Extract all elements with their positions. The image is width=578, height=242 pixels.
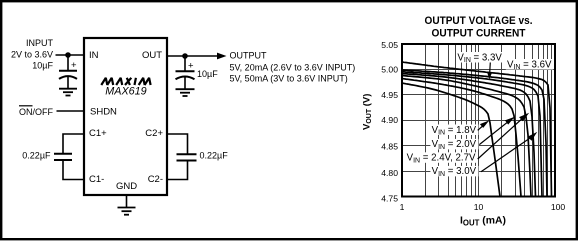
curve VIN=3.0V <box>402 72 542 197</box>
wire C2 bottom to C2- pin <box>167 161 188 180</box>
wire GND pin to ground <box>126 195 128 208</box>
wire C1+ pin to C1 top <box>63 134 84 154</box>
svg-text:5.00: 5.00 <box>381 64 398 74</box>
svg-text:10µF: 10µF <box>197 69 218 79</box>
wire C_out to ground <box>184 77 186 89</box>
svg-text:OUTPUT CURRENT: OUTPUT CURRENT <box>432 28 526 40</box>
chart gridlines <box>402 44 555 197</box>
capacitor C2 0.22uF <box>177 154 197 160</box>
svg-text:5.05: 5.05 <box>381 40 398 50</box>
label VIN=3.0V with arrow <box>430 166 478 177</box>
svg-text:VOUT (V): VOUT (V) <box>362 94 374 130</box>
label VIN=3.3V with pointer <box>456 52 503 63</box>
wire C_in to ground <box>67 77 69 89</box>
svg-text:10: 10 <box>474 202 484 212</box>
capacitor C1 0.22uF <box>54 154 72 160</box>
wire junction down to C_in <box>67 55 69 70</box>
svg-text:4.95: 4.95 <box>381 90 398 100</box>
svg-text:INPUT: INPUT <box>26 38 54 48</box>
curve VIN=2.7V <box>402 74 536 197</box>
svg-text:C1-: C1- <box>89 174 104 185</box>
label VIN=2.0V with arrow <box>430 139 478 150</box>
MAXIM logo <box>101 78 150 85</box>
curve VIN=2.4V <box>402 76 531 197</box>
svg-text:SHDN: SHDN <box>90 106 117 117</box>
svg-text:1: 1 <box>400 202 405 212</box>
svg-text:OUT: OUT <box>142 50 162 61</box>
svg-text:IOUT (mA): IOUT (mA) <box>460 216 506 228</box>
svg-text:ON/OFF: ON/OFF <box>19 107 53 117</box>
svg-text:MAX619: MAX619 <box>105 86 146 98</box>
curve VIN=2.0V <box>402 79 521 197</box>
chart frame <box>402 44 555 197</box>
capacitor C_out 10uF polarized <box>176 71 195 79</box>
node junction output <box>182 53 188 59</box>
ground at GND pin <box>118 208 136 215</box>
wire OUT pin to output arrow <box>167 55 220 57</box>
capacitor C_in 10uF polarized <box>59 71 77 79</box>
label VIN=1.8V with arrow <box>430 125 478 136</box>
svg-text:5V, 20mA (2.6V to 3.6V INPUT): 5V, 20mA (2.6V to 3.6V INPUT) <box>230 62 356 72</box>
curve VIN=3.3V <box>402 70 547 197</box>
wire C2+ pin to C2 top <box>167 134 188 154</box>
svg-text:C2+: C2+ <box>145 128 163 139</box>
svg-text:4.80: 4.80 <box>381 168 398 178</box>
svg-text:+: + <box>71 60 77 71</box>
svg-text:OUTPUT: OUTPUT <box>230 51 268 61</box>
curve VIN=1.8V <box>402 83 500 197</box>
x-axis tick labels <box>400 202 566 212</box>
svg-text:5V, 50mA (3V to 3.6V INPUT): 5V, 50mA (3V to 3.6V INPUT) <box>230 73 348 83</box>
curve VIN=3.6V <box>402 62 552 197</box>
label VIN=2.4V,2.7V with arrow <box>405 152 477 163</box>
svg-text:IN: IN <box>89 50 99 61</box>
ground under C_in <box>59 89 77 96</box>
output arrowhead <box>217 53 227 60</box>
svg-text:GND: GND <box>116 181 137 192</box>
svg-text:4.75: 4.75 <box>381 194 398 204</box>
wire C1 bottom to C1- pin <box>63 160 84 180</box>
svg-text:10µF: 10µF <box>32 61 53 71</box>
svg-text:2V to 3.6V: 2V to 3.6V <box>11 49 53 59</box>
svg-text:+: + <box>188 60 194 71</box>
op-amp/IC U1 MAX619 body <box>84 38 167 195</box>
svg-text:4.90: 4.90 <box>381 115 398 125</box>
y-axis tick labels <box>381 40 398 203</box>
wire ON/OFF to SHDN pin <box>57 110 85 112</box>
svg-text:C2-: C2- <box>148 174 163 185</box>
label VIN=3.6V <box>506 59 554 70</box>
wire input to IN pin <box>56 54 85 56</box>
node junction input <box>65 52 71 58</box>
wire junction down to C_out <box>184 56 186 71</box>
ground under C_out <box>176 89 195 96</box>
svg-text:OUTPUT VOLTAGE vs.: OUTPUT VOLTAGE vs. <box>425 15 533 27</box>
svg-text:0.22µF: 0.22µF <box>200 150 229 160</box>
svg-text:4.85: 4.85 <box>381 141 398 151</box>
svg-text:100: 100 <box>551 202 566 212</box>
svg-text:0.22µF: 0.22µF <box>22 150 51 160</box>
svg-text:C1+: C1+ <box>89 128 107 139</box>
